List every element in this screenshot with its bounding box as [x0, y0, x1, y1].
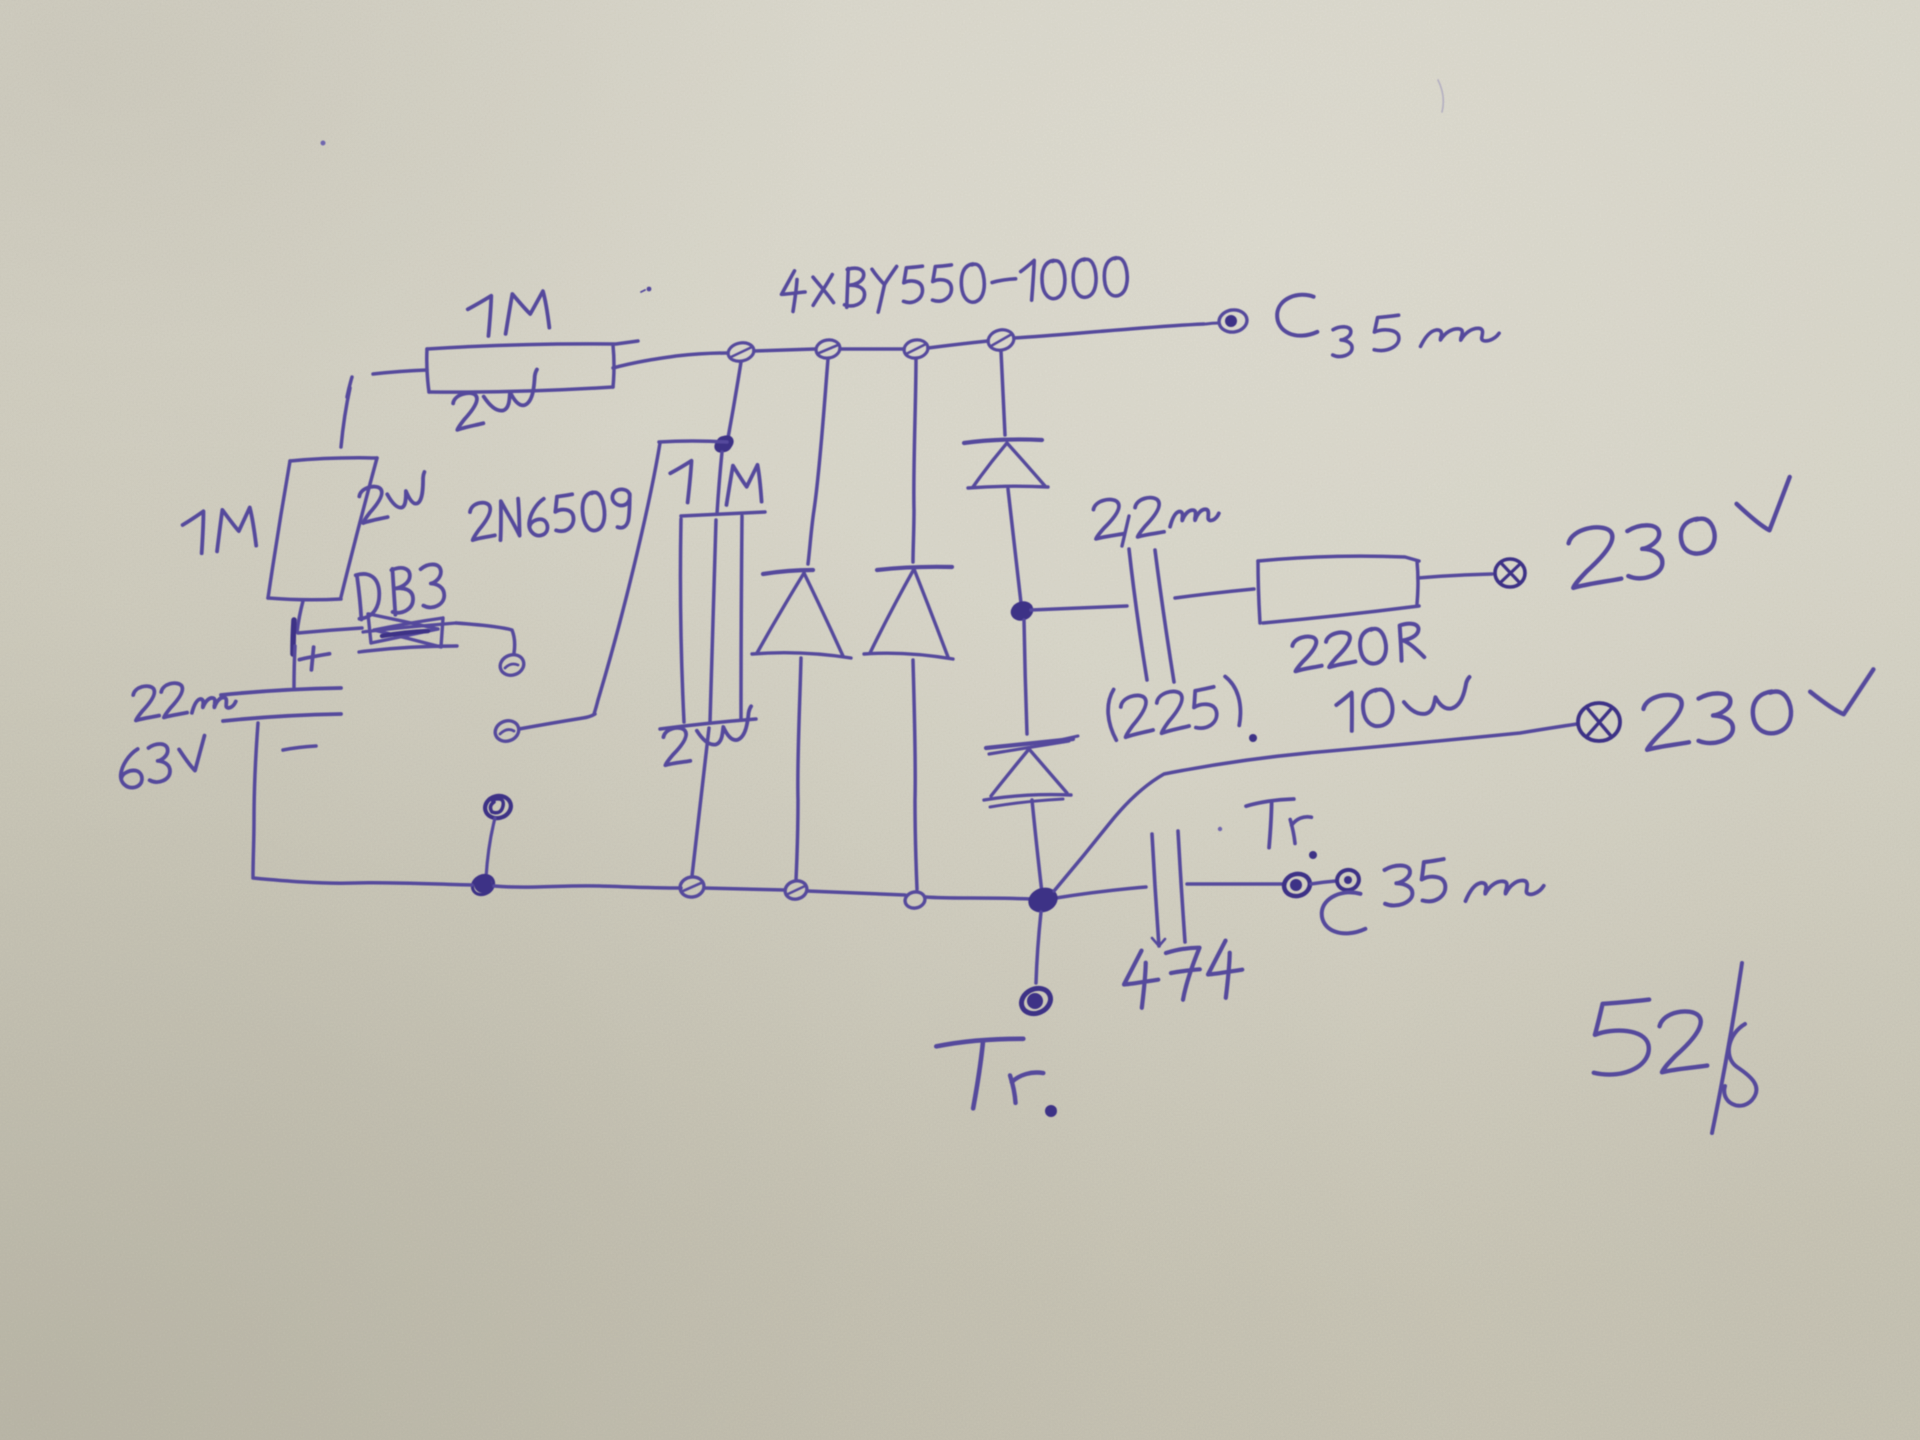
label C1 voltage 63V [118, 736, 210, 789]
label battery minus [283, 746, 316, 750]
wire branch2 from J2 down [808, 359, 828, 564]
wire bottom rail seg3 [704, 888, 785, 890]
wire contact c to bottom rail [486, 818, 495, 878]
label Tr. (big) [936, 1038, 1057, 1117]
terminal Tr (bottom) [1017, 984, 1054, 1018]
label thyristor type 2N6509 [469, 488, 633, 543]
annotation 52/B [1590, 963, 1756, 1133]
junction node T (big blob) [1027, 886, 1058, 914]
diode D3 [964, 439, 1048, 488]
wire bottom rail seg7 [1187, 882, 1283, 886]
junction blob above + [293, 620, 294, 654]
label R4 value 1 M [669, 461, 761, 505]
wire D2 to bottom rail [913, 660, 917, 889]
capacitor C2 plate right [1155, 550, 1174, 682]
label C3 value 474 [1121, 939, 1244, 1009]
wire junction to Tr terminal [1036, 912, 1041, 983]
wire R3 to battery + [297, 601, 303, 632]
node bottom rail at D2 (open loop) [904, 890, 927, 910]
label C1 value 22m [132, 682, 236, 720]
wire branch4 from J4 down [1001, 351, 1005, 435]
junction dot mid right branch [1010, 600, 1034, 622]
wire D4 to big junction [1032, 800, 1042, 893]
label C2 value 2,2M [1093, 497, 1220, 546]
wire junction to lamp2 [1054, 724, 1577, 891]
node bottom rail below switch [469, 872, 497, 899]
wire branch3 from J3 down [913, 359, 916, 562]
terminal node b [1335, 867, 1361, 892]
wire mid node down to D4 [1024, 620, 1027, 734]
wire R1 to R3 (left drop) [341, 388, 350, 447]
wire C1 to bottom rail [253, 723, 258, 877]
label 230V (top) [1567, 477, 1801, 588]
terminal node a [1282, 871, 1313, 899]
label Tr. (small) [1246, 798, 1317, 859]
capacitor C3 plate left [1152, 834, 1165, 946]
diode D2 [864, 567, 953, 659]
resistor R4 1M body [659, 441, 765, 516]
capacitor C2 plate left [1129, 549, 1147, 680]
wire branch1 from J1 down [728, 362, 741, 438]
wire C2 to R2 [1175, 589, 1254, 598]
wire top rail J4 to output node [1014, 324, 1204, 338]
label R5 power 2 W [663, 706, 757, 765]
label R3 power 2W [358, 472, 430, 523]
label battery plus [298, 646, 330, 671]
capacitor C1 plate top [221, 688, 341, 695]
wire bottom rail seg1 [253, 878, 472, 885]
wire mid node to C2 [1031, 606, 1127, 610]
wire branch1 to bottom rail [692, 728, 709, 876]
paper speck 2 [641, 287, 651, 292]
wire branch1 through R4 [710, 452, 722, 722]
node output C (top right) [1206, 308, 1248, 334]
wire between terminals [1311, 881, 1336, 884]
paper speck 5 [1060, 736, 1078, 740]
capacitor C3 plate right [1178, 831, 1185, 942]
label R1 power 2W [452, 370, 544, 430]
node J4 on top rail [986, 327, 1016, 353]
node J1 on top rail [726, 340, 755, 363]
diode D4 [984, 739, 1073, 807]
resistor R5 2W body [660, 516, 756, 729]
junction dot at R4 top [713, 434, 735, 454]
wire top rail J3-J4 [928, 341, 988, 348]
wire bottom rail seg4 [807, 891, 905, 895]
resistor R2 220R body [1258, 556, 1419, 623]
node J3 on top rail [903, 338, 930, 360]
capacitor C1 plate bottom [223, 714, 341, 721]
label R3 value 1M [181, 505, 256, 555]
wire R1 right lead [613, 353, 727, 368]
resistor R1 1M 2W body [427, 341, 638, 392]
wire top rail J1-J2 [754, 349, 815, 351]
paper speck 3 [1438, 80, 1443, 112]
wire D1 to bottom rail [796, 658, 801, 880]
wire diac to switch top contact [456, 623, 515, 653]
wire top rail J2-J3 [840, 347, 904, 351]
switch contact c [483, 793, 514, 821]
label R1 value 1M [466, 289, 549, 338]
wire bottom rail seg6 [1056, 887, 1146, 898]
label output C 35m (top) [1275, 293, 1499, 357]
diac DB3 body [359, 614, 457, 652]
label 230V (bottom) [1642, 669, 1880, 749]
wire bottom rail seg5 [926, 897, 1031, 899]
resistor R3 1M body [268, 458, 377, 600]
lamp terminal 230V top [1495, 559, 1525, 587]
wire gate slant (rect to switch) [594, 443, 660, 714]
label R2 value 220R [1291, 622, 1424, 674]
wire D3 to mid node [1008, 489, 1021, 603]
wire battery+ to diac [298, 628, 362, 633]
wire R1 left lead [347, 370, 427, 397]
paper speck 4 [1218, 827, 1222, 831]
label C 35m (bottom) [1319, 859, 1544, 937]
switch contact a [497, 651, 526, 678]
wire bottom rail seg2 [494, 886, 681, 888]
label R2 power 10W [1335, 677, 1474, 732]
label C2 code (225) [1104, 675, 1257, 742]
node bottom rail at R5 [678, 875, 705, 899]
diode D1 [752, 570, 851, 658]
wire switch mid to gate [519, 714, 595, 729]
switch contact b [492, 717, 521, 744]
paper speck 1 [321, 141, 326, 146]
wire + junction to plate [294, 646, 295, 688]
lamp terminal 230V bottom [1578, 703, 1620, 741]
label rectifier 4xBY550-1000 [780, 256, 1128, 316]
node J2 on top rail [815, 338, 842, 360]
node bottom rail at D1 [783, 878, 809, 901]
label diac DB3 [353, 562, 446, 619]
wire R2 right lead [1418, 574, 1492, 578]
